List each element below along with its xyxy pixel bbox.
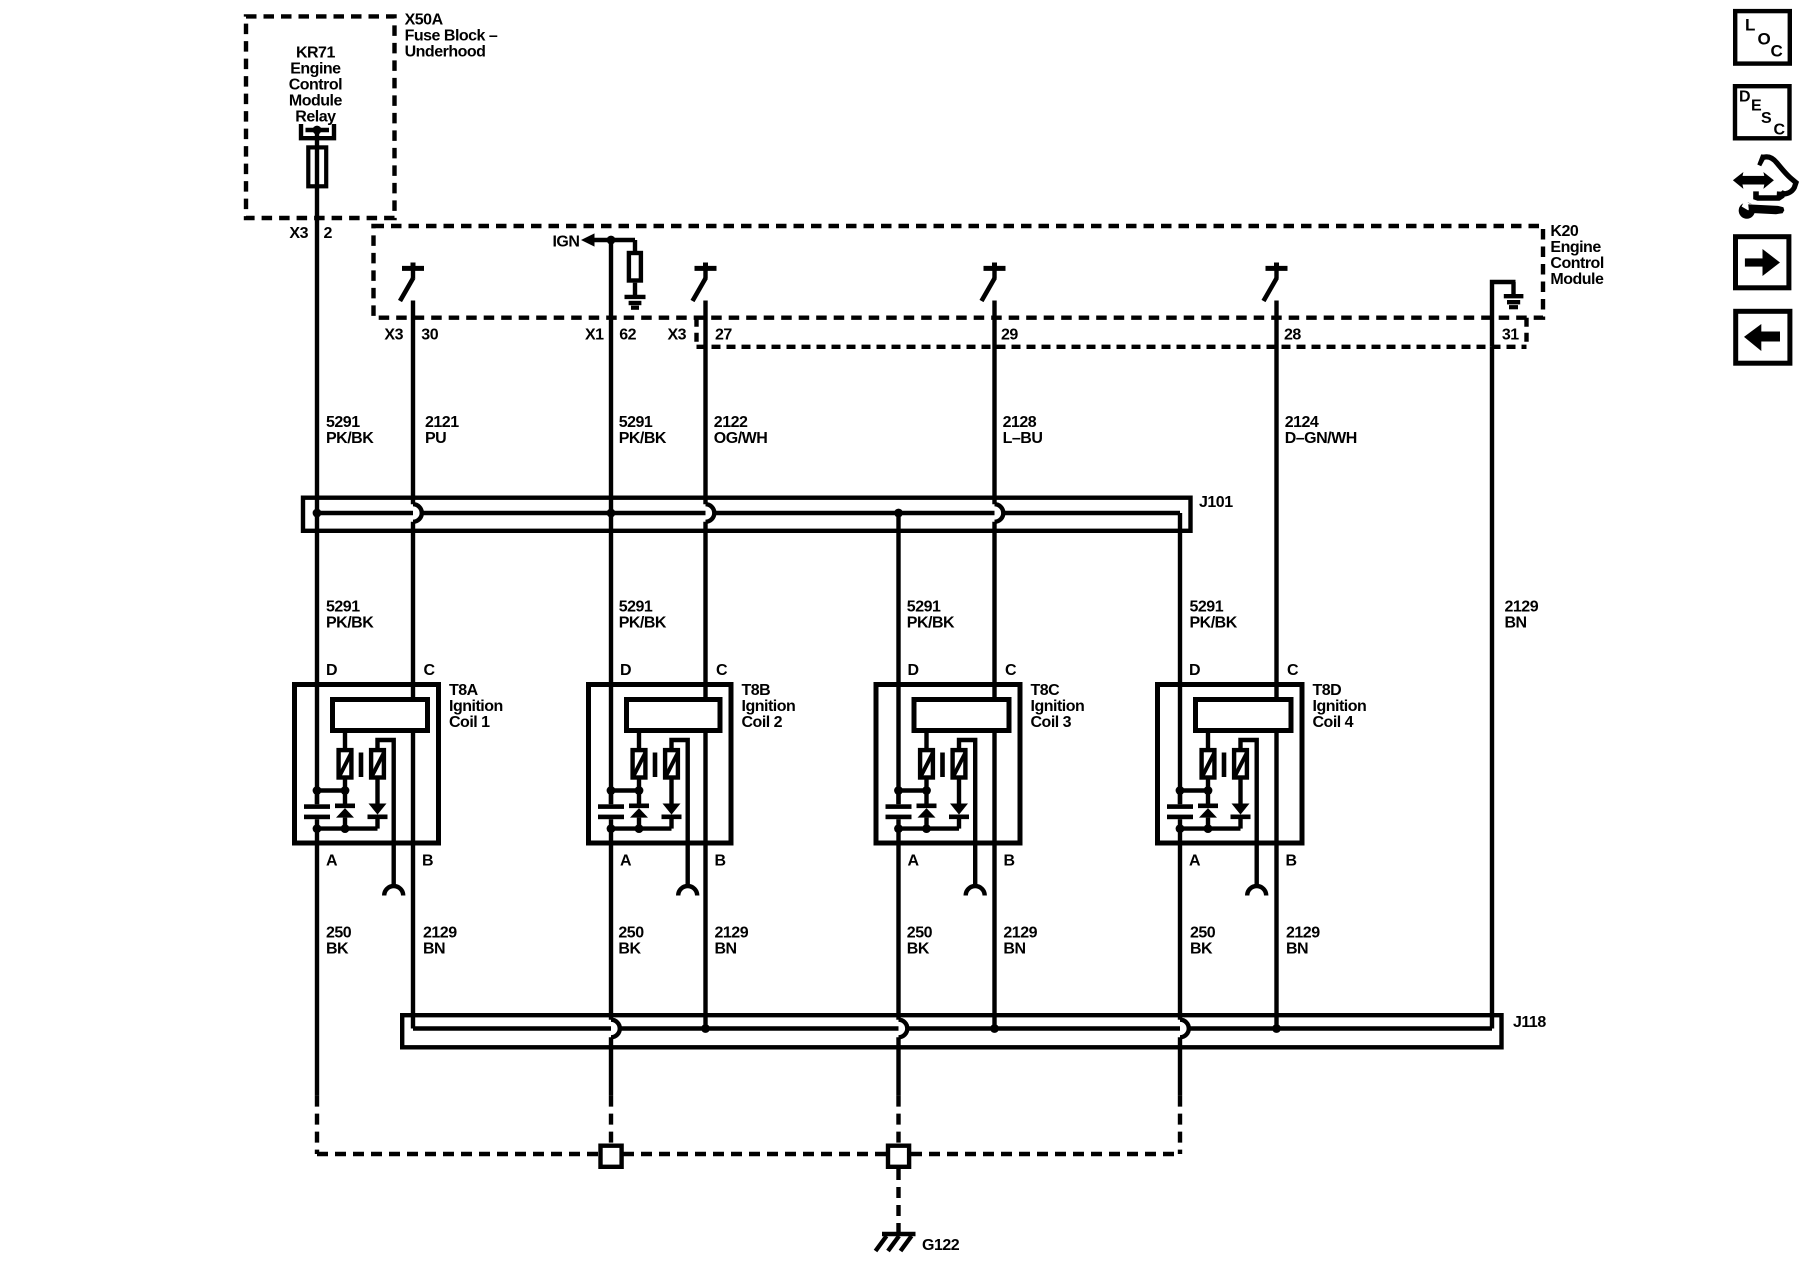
svg-text:2129: 2129 (1003, 925, 1037, 942)
svg-text:B: B (1286, 853, 1297, 870)
svg-text:PU: PU (425, 430, 446, 447)
svg-text:2129: 2129 (423, 925, 457, 942)
svg-text:X3: X3 (668, 327, 687, 344)
svg-text:BN: BN (1003, 941, 1025, 958)
svg-text:2129: 2129 (1505, 599, 1539, 616)
svg-text:Relay: Relay (295, 109, 336, 126)
svg-text:D: D (908, 662, 919, 679)
svg-text:BK: BK (326, 941, 349, 958)
svg-text:Coil 2: Coil 2 (742, 714, 783, 731)
svg-text:A: A (326, 853, 338, 870)
svg-text:2122: 2122 (714, 414, 748, 431)
svg-text:5291: 5291 (619, 414, 653, 431)
svg-text:K20: K20 (1550, 223, 1578, 240)
svg-text:X3: X3 (384, 327, 403, 344)
svg-text:A: A (1189, 853, 1201, 870)
svg-text:2129: 2129 (1286, 925, 1320, 942)
svg-text:Ignition: Ignition (742, 698, 796, 715)
svg-text:B: B (1004, 853, 1015, 870)
svg-text:250: 250 (326, 925, 352, 942)
svg-text:S: S (1761, 110, 1772, 127)
svg-text:J118: J118 (1513, 1014, 1546, 1031)
svg-text:BN: BN (1286, 941, 1308, 958)
svg-text:J101: J101 (1199, 494, 1233, 511)
svg-text:OG/WH: OG/WH (714, 430, 768, 447)
svg-text:Control: Control (1550, 255, 1603, 272)
svg-text:Engine: Engine (1550, 239, 1601, 256)
svg-text:L–BU: L–BU (1003, 430, 1043, 447)
svg-text:2124: 2124 (1285, 414, 1319, 431)
svg-text:2129: 2129 (715, 925, 749, 942)
svg-text:27: 27 (715, 327, 732, 344)
svg-text:D–GN/WH: D–GN/WH (1285, 430, 1357, 447)
svg-text:B: B (715, 853, 726, 870)
svg-text:IGN: IGN (552, 234, 579, 251)
svg-text:D: D (1739, 89, 1750, 106)
svg-text:5291: 5291 (326, 599, 360, 616)
svg-text:Underhood: Underhood (405, 44, 486, 61)
svg-text:X1: X1 (585, 327, 604, 344)
svg-text:Control: Control (289, 77, 342, 94)
svg-text:5291: 5291 (619, 599, 653, 616)
svg-text:A: A (908, 853, 920, 870)
svg-text:C: C (424, 662, 436, 679)
svg-text:X3: X3 (289, 225, 308, 242)
svg-text:BK: BK (907, 941, 930, 958)
svg-text:B: B (422, 853, 433, 870)
svg-text:A: A (620, 853, 632, 870)
svg-text:PK/BK: PK/BK (619, 430, 667, 447)
svg-text:X50A: X50A (405, 12, 444, 29)
svg-text:28: 28 (1284, 327, 1301, 344)
svg-text:D: D (326, 662, 337, 679)
svg-text:Module: Module (289, 93, 343, 110)
svg-text:PK/BK: PK/BK (326, 430, 374, 447)
svg-text:250: 250 (1190, 925, 1216, 942)
svg-text:BN: BN (1505, 615, 1527, 632)
svg-text:T8C: T8C (1031, 682, 1061, 699)
svg-text:O: O (1758, 30, 1771, 49)
svg-text:Ignition: Ignition (449, 698, 503, 715)
svg-text:T8A: T8A (449, 682, 479, 699)
svg-text:PK/BK: PK/BK (619, 615, 667, 632)
svg-text:D: D (620, 662, 631, 679)
svg-text:Coil 4: Coil 4 (1313, 714, 1354, 731)
svg-text:C: C (1774, 122, 1786, 139)
svg-text:Module: Module (1550, 271, 1604, 288)
svg-text:BN: BN (715, 941, 737, 958)
svg-text:BK: BK (1190, 941, 1213, 958)
svg-text:5291: 5291 (326, 414, 360, 431)
svg-text:KR71: KR71 (296, 45, 336, 62)
svg-text:T8D: T8D (1313, 682, 1342, 699)
svg-text:2121: 2121 (425, 414, 459, 431)
svg-text:PK/BK: PK/BK (1190, 615, 1238, 632)
svg-text:Coil 1: Coil 1 (449, 714, 490, 731)
svg-text:250: 250 (618, 925, 644, 942)
svg-text:G122: G122 (922, 1237, 960, 1254)
svg-text:Ignition: Ignition (1031, 698, 1085, 715)
svg-text:5291: 5291 (1190, 599, 1224, 616)
svg-text:31: 31 (1502, 327, 1519, 344)
svg-text:Ignition: Ignition (1313, 698, 1367, 715)
svg-text:2: 2 (324, 225, 333, 242)
svg-text:PK/BK: PK/BK (907, 615, 955, 632)
svg-text:2128: 2128 (1003, 414, 1037, 431)
svg-text:Coil 3: Coil 3 (1031, 714, 1072, 731)
svg-text:5291: 5291 (907, 599, 941, 616)
svg-text:C: C (1771, 42, 1783, 61)
svg-text:C: C (716, 662, 728, 679)
svg-text:Engine: Engine (290, 61, 341, 78)
svg-text:BN: BN (423, 941, 445, 958)
svg-text:D: D (1189, 662, 1200, 679)
svg-text:BK: BK (618, 941, 641, 958)
svg-text:Fuse Block –: Fuse Block – (405, 28, 498, 45)
svg-text:C: C (1005, 662, 1017, 679)
svg-text:C: C (1287, 662, 1299, 679)
svg-text:250: 250 (907, 925, 933, 942)
svg-text:30: 30 (421, 327, 438, 344)
svg-text:T8B: T8B (742, 682, 771, 699)
svg-text:29: 29 (1001, 327, 1018, 344)
svg-text:62: 62 (619, 327, 636, 344)
svg-text:PK/BK: PK/BK (326, 615, 374, 632)
svg-text:L: L (1745, 16, 1755, 35)
